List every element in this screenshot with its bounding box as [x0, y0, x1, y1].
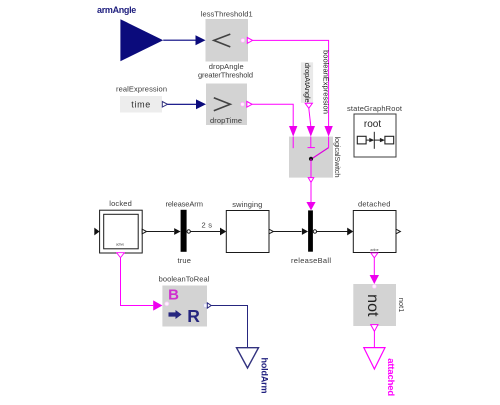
svg-text:holdArm: holdArm [259, 358, 269, 394]
svg-text:releaseArm: releaseArm [165, 199, 203, 208]
svg-text:stateGraphRoot: stateGraphRoot [347, 104, 403, 113]
svg-text:realExpression: realExpression [116, 85, 167, 94]
svg-text:booleanToReal: booleanToReal [159, 275, 210, 284]
converter booleanToReal [159, 275, 212, 327]
svg-text:R: R [187, 306, 200, 326]
svg-text:2 s: 2 s [201, 220, 212, 229]
wire armAngle to lessThreshold1 [163, 39, 196, 41]
output connector holdArm [237, 348, 270, 394]
wire swinging to releaseBall [273, 231, 301, 233]
wire booleanToReal to holdArm [211, 306, 247, 348]
svg-text:active: active [116, 243, 125, 247]
svg-text:B: B [168, 287, 179, 304]
svg-text:logicalSwitch: logicalSwitch [333, 137, 342, 178]
svg-text:not1: not1 [397, 298, 406, 313]
svg-text:releaseBall: releaseBall [291, 256, 331, 265]
svg-text:attached: attached [385, 358, 396, 396]
svg-text:true: true [177, 256, 191, 265]
svg-text:lessThreshold1: lessThreshold1 [201, 10, 253, 19]
source dropAtAngle [301, 62, 313, 108]
wire lessThreshold1 to logicalSwitch u3 [253, 40, 333, 136]
step locked (initial step) [94, 199, 146, 258]
svg-text:swinging: swinging [232, 200, 262, 209]
wire locked.active to booleanToReal [121, 258, 163, 311]
transition releaseBall [291, 210, 331, 265]
svg-text:locked: locked [109, 199, 132, 208]
wire releaseArm to swinging with label 2 s [190, 220, 226, 235]
step detached [347, 200, 400, 258]
svg-text:dropTime: dropTime [210, 116, 242, 125]
svg-text:greaterThreshold: greaterThreshold [198, 70, 253, 79]
output connector attached [364, 348, 396, 397]
svg-text:dropAtAngle: dropAtAngle [303, 63, 312, 103]
switch logicalSwitch [289, 137, 342, 183]
wire dropAtAngle to logicalSwitch u2 [307, 108, 315, 136]
state machine root stateGraphRoot [347, 104, 403, 157]
source realExpression (time) [116, 85, 168, 113]
svg-text:booleanExpression: booleanExpression [322, 50, 331, 114]
wire time to greaterThreshold [168, 103, 199, 105]
input connector armAngle [97, 5, 163, 61]
svg-text:not: not [364, 294, 381, 317]
wire detached.active to not1 [370, 258, 379, 284]
wire dropTime to logicalSwitch u1 [252, 104, 297, 136]
svg-text:armAngle: armAngle [97, 5, 136, 15]
svg-text:detached: detached [358, 200, 391, 209]
gate not1 [353, 284, 406, 331]
wire locked to releaseArm [147, 231, 174, 233]
wire not1 to attached [373, 331, 375, 347]
transition releaseArm (condition true) [165, 199, 203, 265]
svg-text:root: root [364, 119, 381, 130]
svg-text:time: time [131, 99, 150, 109]
svg-text:active: active [370, 248, 379, 252]
wire releaseBall to detached [317, 231, 348, 233]
comparator greaterThreshold (dropTime) [196, 70, 253, 125]
comparator lessThreshold1 (dropAngle) [196, 10, 253, 72]
wire logicalSwitch to releaseBall condition [306, 182, 315, 210]
step swinging [226, 200, 273, 253]
